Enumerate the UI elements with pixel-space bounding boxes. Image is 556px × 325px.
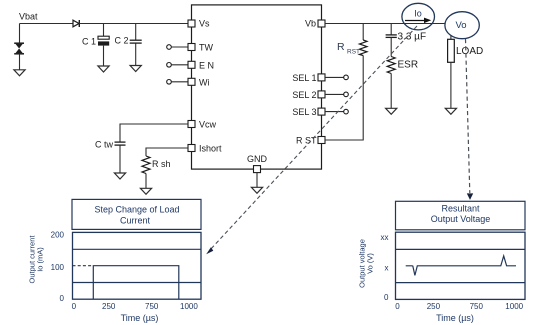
pin SEL 1 [292,73,348,83]
pin Vcw [188,120,217,130]
svg-text:RST: RST [347,49,360,56]
svg-text:SEL 2: SEL 2 [292,90,316,100]
resistor R RST [337,24,367,56]
left chart title box [72,199,201,229]
wire GND to ground [256,173,258,188]
svg-text:Step Change of Load: Step Change of Load [94,205,179,215]
node Vbat label [19,12,38,22]
svg-text:Current: Current [120,216,151,226]
svg-text:R: R [337,41,345,53]
svg-text:100: 100 [51,263,65,272]
right chart plot box [396,232,526,299]
svg-text:Resultant: Resultant [441,204,480,214]
svg-text:0: 0 [395,302,400,311]
svg-text:SEL 1: SEL 1 [292,73,316,83]
svg-text:Time (µs): Time (µs) [121,313,159,323]
svg-text:0: 0 [60,294,65,303]
left chart dashed 100 level [73,265,94,267]
svg-text:200: 200 [51,231,65,240]
load current pulse waveform [93,266,179,299]
pin R ST [296,136,325,146]
svg-text:Io (mA): Io (mA) [36,247,45,272]
pin TW [167,43,214,53]
capacitor Ctw [95,140,126,174]
svg-text:Vo: Vo [455,20,466,31]
ground under C2 [130,66,141,72]
current source Io [402,3,435,30]
resistor Rsh [142,156,171,188]
pin Wi [167,77,210,87]
svg-text:0: 0 [384,293,389,302]
ground under Rsh [140,188,151,194]
pin SEL 3 [292,107,348,117]
svg-text:GND: GND [247,154,268,164]
right chart y labels [381,233,390,302]
right chart y axis title [358,239,375,288]
svg-text:C tw: C tw [95,140,114,150]
wire diode to Vs pin [80,23,189,25]
left chart plot box [73,232,202,299]
wire Vbat vertical [19,24,21,44]
left chart x labels [72,302,199,311]
right chart title box [396,201,526,230]
svg-text:Ishort: Ishort [199,144,222,154]
resistor ESR [387,57,418,109]
wire Vb output [325,23,445,25]
svg-text:Io: Io [414,9,422,19]
svg-text:Vb: Vb [305,19,316,29]
svg-text:Output Voltage: Output Voltage [431,214,491,224]
svg-text:ESR: ESR [398,59,419,70]
pin Ishort [188,144,222,154]
svg-text:C 2: C 2 [115,36,129,46]
svg-text:x: x [385,263,389,272]
svg-text:Vcw: Vcw [199,120,217,130]
wire Vcw [120,124,188,142]
svg-text:C 1: C 1 [82,37,96,47]
pin Vs [188,19,210,29]
svg-text:1000: 1000 [180,302,198,311]
ground under GND pin [251,187,262,193]
left chart y axis title [28,235,45,284]
pin GND [247,154,268,173]
ground under load [445,108,456,114]
svg-text:LOAD: LOAD [456,46,483,57]
svg-text:250: 250 [427,302,441,311]
svg-text:SEL 3: SEL 3 [292,107,316,117]
TVS diode D2 (bidirectional zener) [14,43,24,70]
node Vo circle [445,12,479,39]
IC U1 box [192,5,322,169]
right chart x axis title [436,313,474,323]
svg-text:0: 0 [72,302,77,311]
ground under Ctw [114,173,125,179]
capacitor C2 [115,24,142,66]
capacitor 3.3uF [386,24,426,57]
svg-text:xx: xx [381,233,389,242]
pin SEL 2 [292,90,348,100]
svg-text:750: 750 [470,302,484,311]
diode D1 [73,20,79,27]
svg-text:Vbat: Vbat [19,12,38,22]
dashed arrow to right chart [466,39,474,200]
pin Vb [305,19,325,29]
svg-text:Vo (V): Vo (V) [366,253,375,274]
svg-text:TW: TW [199,43,213,53]
output voltage waveform [406,256,516,276]
svg-text:E N: E N [199,60,214,70]
wire RST to resistor [325,56,363,141]
pin EN [167,60,214,70]
svg-text:R sh: R sh [152,159,171,169]
svg-text:Time (µs): Time (µs) [436,313,474,323]
svg-text:Vs: Vs [199,19,210,29]
right chart x labels [395,302,523,311]
ground under TVS [14,70,25,76]
ground under C1 [98,66,109,72]
load block [448,36,484,109]
svg-text:1000: 1000 [505,302,523,311]
svg-text:Wi: Wi [199,77,210,87]
svg-text:750: 750 [145,302,159,311]
left chart x axis title [121,313,159,323]
wire Ishort [146,148,188,156]
ground under ESR [386,108,397,114]
capacitor C1 [82,24,109,67]
dashed arrow to left chart [206,26,417,254]
svg-text:3.3 µF: 3.3 µF [398,31,427,42]
svg-text:250: 250 [102,302,116,311]
left chart y labels [51,231,65,303]
wire Vbat to diode [20,23,74,25]
